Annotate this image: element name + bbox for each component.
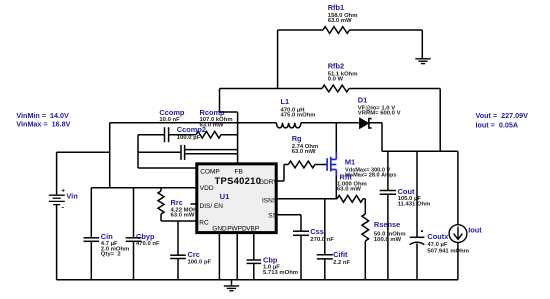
wire comp left vertical bbox=[137, 135, 139, 168]
svg-text:ISNS: ISNS bbox=[262, 198, 278, 205]
svg-text:Iout = 0.05A: Iout = 0.05A bbox=[476, 120, 519, 129]
svg-text:0.0 W: 0.0 W bbox=[328, 77, 344, 83]
wire Vin feed horizontal bbox=[57, 151, 110, 153]
battery Vin bbox=[49, 195, 65, 204]
capacitor Crc bbox=[177, 221, 179, 255]
capacitor Css bbox=[278, 214, 302, 216]
wire left corner vertical bbox=[109, 123, 111, 188]
svg-text:507.941 mOhm: 507.941 mOhm bbox=[427, 248, 469, 254]
svg-text:Rfb1: Rfb1 bbox=[328, 3, 344, 12]
svg-text:63.0 mW: 63.0 mW bbox=[328, 18, 352, 24]
inductor L1 bbox=[276, 123, 300, 128]
wire FB vertical bbox=[237, 112, 239, 164]
capacitor Ccomp bbox=[138, 134, 165, 136]
wire Rfb2 left vertical bbox=[219, 89, 221, 113]
svg-text:63.0 mW: 63.0 mW bbox=[292, 149, 316, 155]
wire RC pin to Rrc bbox=[161, 220, 196, 222]
wire top rail Vin to L1 bbox=[110, 122, 277, 124]
wire GND pin bbox=[218, 233, 220, 280]
svg-text:Rflt: Rflt bbox=[340, 173, 353, 182]
wire GDRV pin bbox=[278, 180, 285, 182]
svg-text:Cbp: Cbp bbox=[263, 256, 278, 265]
diode D1 bbox=[360, 118, 369, 129]
svg-text:RC: RC bbox=[199, 220, 209, 227]
capacitor Cbp (VBP pin) bbox=[253, 233, 255, 261]
svg-text:L1: L1 bbox=[281, 97, 290, 106]
resistor Rflt bbox=[337, 195, 363, 202]
svg-text:VBP: VBP bbox=[246, 226, 259, 233]
capacitor Ccomp2 bbox=[138, 151, 181, 153]
wire diode to Vout node bbox=[381, 123, 383, 152]
svg-text:PWPD: PWPD bbox=[227, 226, 247, 233]
svg-text:TPS40210: TPS40210 bbox=[215, 175, 262, 186]
ground (IC) bbox=[231, 280, 233, 286]
svg-text:Vin: Vin bbox=[66, 191, 78, 200]
svg-text:SS: SS bbox=[268, 212, 277, 219]
svg-text:470.0 nF: 470.0 nF bbox=[136, 241, 160, 247]
svg-text:Rrc: Rrc bbox=[171, 198, 183, 207]
svg-text:M1: M1 bbox=[345, 157, 355, 166]
resistor Rfb2 bbox=[220, 88, 323, 90]
capacitor Cout bbox=[387, 151, 389, 190]
wire Rfb1 left vertical bbox=[277, 30, 279, 89]
resistor Rrc bbox=[160, 188, 162, 191]
svg-text:5.713 mOhm: 5.713 mOhm bbox=[263, 270, 298, 276]
svg-text:U1: U1 bbox=[220, 192, 230, 201]
wire FB top jog bbox=[220, 111, 238, 113]
transistor M1 bbox=[327, 152, 336, 177]
svg-text:Qty= 2: Qty= 2 bbox=[101, 252, 122, 258]
svg-text:63.0 mW: 63.0 mW bbox=[171, 213, 195, 219]
svg-text:100.0 pF: 100.0 pF bbox=[177, 135, 201, 141]
wire bottom rail bbox=[57, 279, 458, 281]
svg-text:Cin: Cin bbox=[101, 232, 113, 241]
svg-text:11.431 Ohm: 11.431 Ohm bbox=[398, 202, 431, 208]
capacitor Cin bbox=[90, 188, 92, 238]
svg-text:Rsense: Rsense bbox=[374, 220, 400, 229]
svg-text:63.0 mW: 63.0 mW bbox=[337, 187, 361, 193]
svg-text:DIS/ EN: DIS/ EN bbox=[200, 203, 224, 210]
svg-text:VRRM= 600.0 V: VRRM= 600.0 V bbox=[358, 111, 401, 117]
wire Rfb2 right vertical bbox=[439, 89, 441, 152]
svg-text:Vout = 227.09V: Vout = 227.09V bbox=[476, 111, 529, 120]
svg-text:GDRV: GDRV bbox=[259, 179, 278, 186]
svg-text:10.0 nF: 10.0 nF bbox=[159, 117, 180, 123]
svg-text:2.2 nF: 2.2 nF bbox=[333, 260, 350, 266]
svg-text:Cifit: Cifit bbox=[333, 250, 348, 259]
svg-text:47.0 µF: 47.0 µF bbox=[427, 242, 447, 248]
svg-text:GND: GND bbox=[212, 226, 227, 233]
svg-text:VinMax = 16.8V: VinMax = 16.8V bbox=[16, 119, 70, 128]
resistor Rcomp bbox=[196, 131, 221, 138]
wire M1 drain vertical bbox=[335, 123, 337, 153]
resistor Rg bbox=[288, 161, 315, 168]
wire PWPD pin bbox=[236, 233, 238, 280]
capacitor Coutx bbox=[416, 151, 418, 237]
svg-text:Css: Css bbox=[310, 227, 324, 236]
svg-text:IdsMax= 28.0 Amps: IdsMax= 28.0 Amps bbox=[345, 173, 397, 179]
svg-text:Rfb2: Rfb2 bbox=[328, 61, 344, 70]
wire Vout node line bbox=[382, 150, 458, 152]
capacitor Cbyp bbox=[133, 188, 135, 238]
ground (Rfb1) bbox=[421, 30, 423, 59]
svg-text:Coutx: Coutx bbox=[427, 232, 449, 241]
svg-text:270.0 nF: 270.0 nF bbox=[310, 237, 334, 243]
svg-text:Cbyp: Cbyp bbox=[136, 232, 155, 241]
wire Vin stem bottom bbox=[56, 205, 58, 280]
resistor Rsense bbox=[364, 199, 366, 214]
svg-text:+: + bbox=[61, 188, 65, 195]
current source Iout bbox=[457, 151, 459, 224]
svg-text:Rg: Rg bbox=[292, 134, 302, 143]
svg-text:D1: D1 bbox=[358, 95, 367, 104]
op-amp U1 TPS40210 IC box bbox=[197, 164, 276, 233]
wire COMP pin bbox=[138, 167, 196, 169]
wire VDD rail bbox=[91, 187, 196, 189]
DIS/EN stub bbox=[190, 203, 196, 205]
wire M1 source to ISNS node bbox=[335, 176, 337, 199]
svg-text:Ccomp2: Ccomp2 bbox=[177, 125, 206, 134]
resistor Rfb1 bbox=[278, 29, 323, 31]
capacitor Cifit bbox=[324, 199, 326, 255]
svg-text:Iout: Iout bbox=[468, 225, 482, 234]
svg-text:475.0 mOhm: 475.0 mOhm bbox=[281, 113, 316, 119]
svg-text:100.0 pF: 100.0 pF bbox=[188, 260, 212, 266]
wire ISNS bbox=[278, 198, 338, 200]
svg-text:Crc: Crc bbox=[188, 250, 200, 259]
svg-text:Ccomp: Ccomp bbox=[159, 108, 185, 117]
svg-text:VDD: VDD bbox=[200, 185, 214, 192]
svg-text:Cout: Cout bbox=[398, 187, 415, 196]
wire Vin stem top bbox=[56, 152, 58, 194]
